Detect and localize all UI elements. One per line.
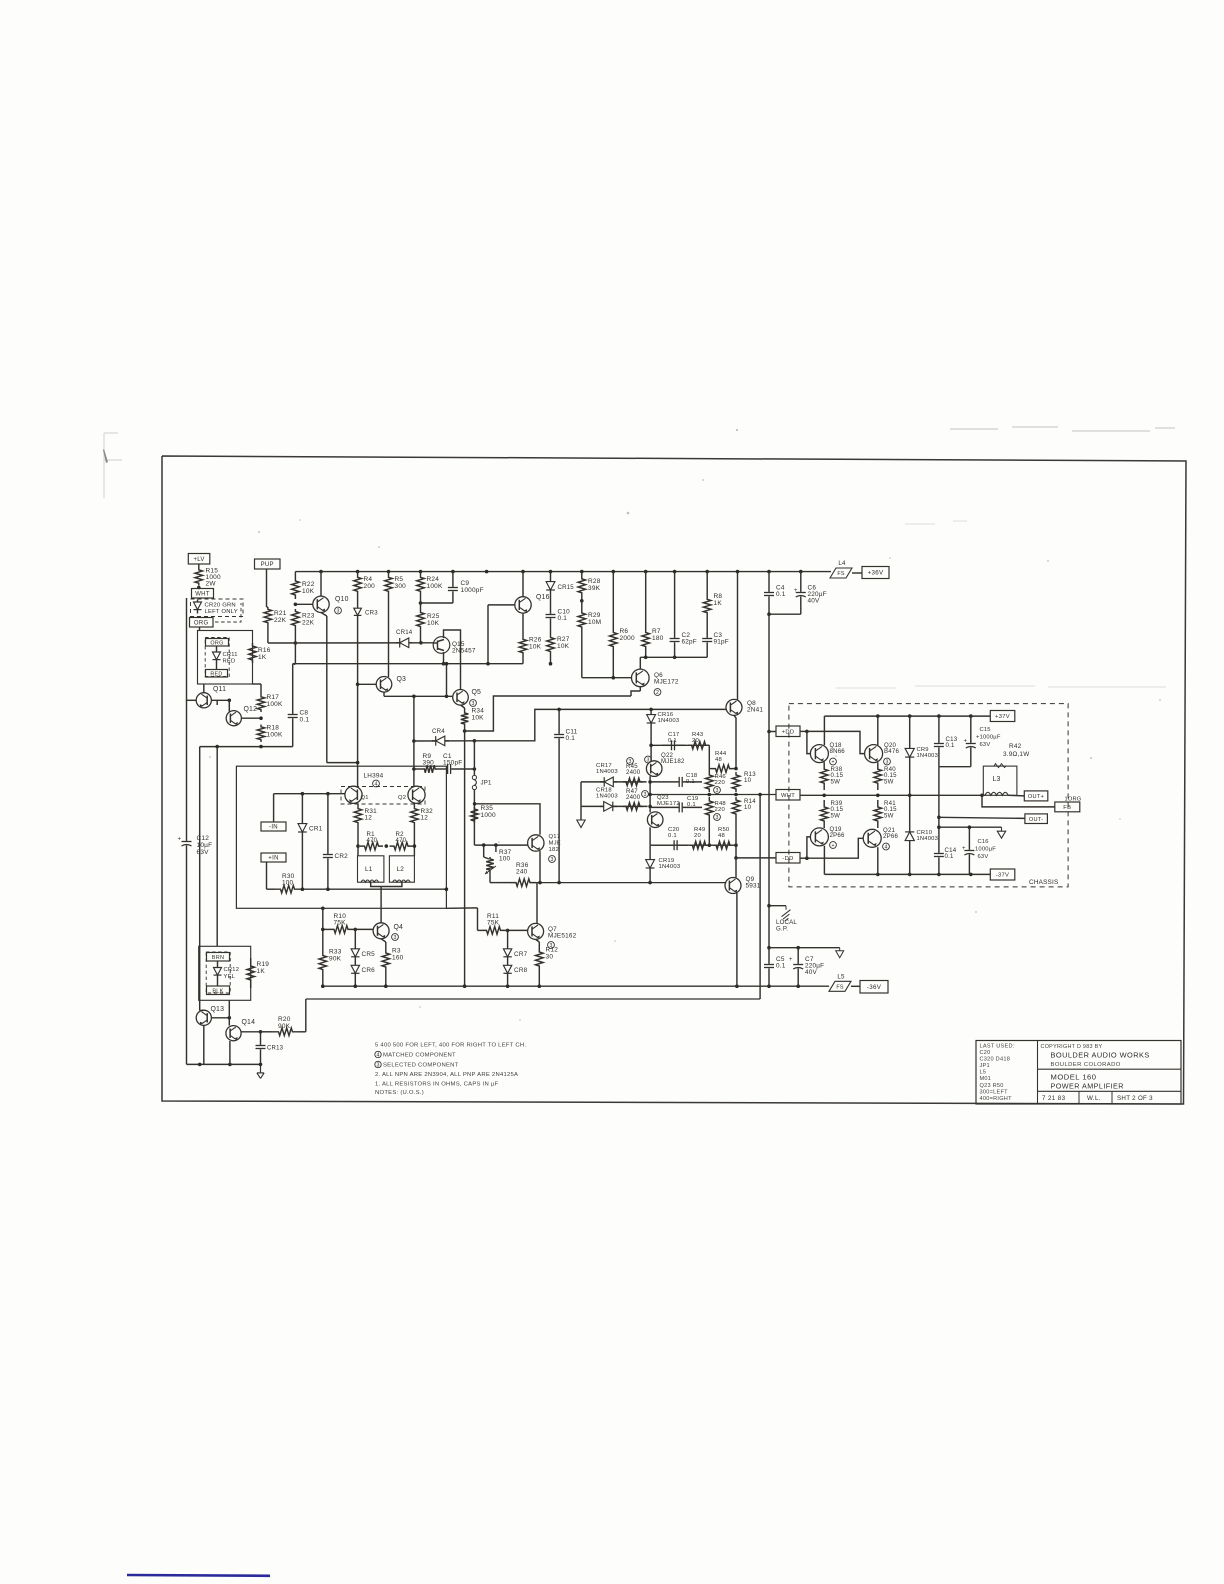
wire Q12 emitter to R17/R18 node bbox=[241, 717, 261, 719]
node -DD bbox=[776, 853, 800, 864]
svg-text:3: 3 bbox=[377, 1062, 380, 1068]
wire R14 bottom to -DD node bbox=[735, 817, 737, 878]
transistor Q10 bbox=[313, 596, 329, 612]
capacitor C14 0.1 bbox=[938, 840, 940, 853]
wire PUP down to R21 bbox=[266, 569, 268, 607]
resistor R34 10K bbox=[461, 711, 469, 726]
resistor R18 100K bbox=[257, 725, 265, 743]
transistor Q23 MJE172 bbox=[647, 812, 663, 828]
svg-text:90K: 90K bbox=[278, 1023, 291, 1030]
resistor R15 1000 2W bbox=[195, 568, 203, 586]
capacitor C13 0.1 bbox=[938, 716, 940, 743]
wire Q10 collector to bus bbox=[320, 572, 322, 597]
photocopy specks bbox=[258, 531, 260, 533]
svg-text:100K: 100K bbox=[267, 731, 283, 738]
svg-text:-37V: -37V bbox=[996, 873, 1009, 879]
svg-text:8N66: 8N66 bbox=[830, 748, 846, 755]
wire Q9 emitter down to bus bbox=[736, 893, 738, 986]
resistor R19 1K (on box edge) bbox=[247, 958, 255, 988]
dashed outline LH394 pair bbox=[341, 787, 425, 805]
collector tie line (R7/C2/C3/Q6) bbox=[640, 656, 707, 658]
svg-text:150pF: 150pF bbox=[443, 760, 462, 767]
node BRN bbox=[207, 953, 230, 962]
wire C4/C6 bottom tie bbox=[769, 613, 801, 615]
svg-text:100: 100 bbox=[282, 879, 294, 886]
trimmer R37 100 bbox=[483, 845, 485, 857]
resistor R20 90K bbox=[272, 1028, 299, 1036]
page margin mark (faint photocopy artifact, left edge) bbox=[104, 433, 122, 498]
wire Q17 emitter down to bias line bbox=[539, 851, 541, 883]
resistor R25 10K bbox=[417, 610, 425, 629]
wire Q13 base to Q14 column bbox=[211, 1017, 229, 1019]
wire Q21 collector to bottom rail bbox=[877, 847, 879, 874]
svg-text:CR5: CR5 bbox=[362, 951, 376, 958]
chassis ground triangle bbox=[1001, 827, 1003, 831]
svg-text:BOULDER COLORADO: BOULDER COLORADO bbox=[1051, 1062, 1121, 1068]
inductor L1 (pot core box) bbox=[358, 856, 384, 882]
svg-text:91pF: 91pF bbox=[714, 639, 729, 646]
resistor R12 30 bbox=[536, 948, 544, 970]
resistor R24 100K bbox=[417, 572, 425, 597]
transistor Q18 bbox=[810, 745, 828, 763]
wire R21 to gate line bbox=[267, 625, 269, 643]
feedback tap to FB node bbox=[982, 795, 1055, 807]
indicator assembly box (CR11) bbox=[198, 631, 253, 685]
wire R23 bottom to gate line bbox=[294, 628, 296, 643]
wire L3 to OUT+ bbox=[1008, 794, 1024, 797]
svg-text:+LV: +LV bbox=[193, 557, 204, 563]
svg-text:30: 30 bbox=[546, 953, 554, 960]
junction R10/CR5 bbox=[354, 928, 358, 932]
decoupling tap line bbox=[769, 947, 840, 949]
svg-text:5 400 500 FOR LEFT, 400 FOR R: 5 400 500 FOR LEFT, 400 FOR RIGHT TO LEF… bbox=[375, 1043, 526, 1049]
capacitor C18 0.1 bbox=[651, 781, 679, 783]
svg-text:CR7: CR7 bbox=[514, 951, 528, 958]
C20/R49/R50 line bbox=[650, 844, 736, 846]
junction R28/R29 bbox=[580, 599, 584, 603]
node BLK bbox=[207, 986, 230, 995]
svg-text:48: 48 bbox=[715, 757, 722, 763]
transistor Q19 bbox=[810, 828, 828, 846]
wire R33 tap down bbox=[322, 929, 324, 951]
svg-text:1. ALL RESISTORS IN OHMS, CAPS: 1. ALL RESISTORS IN OHMS, CAPS IN µF bbox=[375, 1081, 499, 1087]
wire Q3 emitter to Q5 base line bbox=[383, 692, 385, 696]
mirror bias line bbox=[295, 663, 524, 665]
wire box bottom to R10 bbox=[322, 908, 324, 929]
diode CR9 1N4003 bbox=[909, 716, 911, 795]
svg-text:2W: 2W bbox=[206, 581, 217, 588]
staircase wire R34 node to Q6 emitter bbox=[465, 696, 631, 731]
wire Q11 emitter to Q12 bbox=[211, 699, 229, 701]
output mid rail bbox=[800, 794, 985, 796]
diode CR16 1N4003 bbox=[650, 709, 652, 745]
svg-text:FS: FS bbox=[837, 571, 844, 577]
svg-text:-DD: -DD bbox=[782, 856, 793, 862]
node +LV bbox=[188, 554, 210, 565]
svg-text:C15: C15 bbox=[980, 727, 991, 733]
wire Q11 collector to indicator box bbox=[203, 684, 205, 693]
wire OUT- line bbox=[939, 817, 1025, 818]
resistor R48 220 bbox=[706, 797, 714, 819]
diode CR15 bbox=[550, 572, 552, 598]
wire Q22 emitter / Q23 collector column bbox=[649, 776, 651, 812]
resistor R46 220 bbox=[706, 772, 714, 792]
WHT drive line bbox=[650, 794, 776, 796]
svg-text:+36V: +36V bbox=[868, 570, 884, 577]
resistor R26 10K bbox=[519, 637, 527, 655]
svg-text:0.1: 0.1 bbox=[668, 738, 677, 744]
svg-text:+: + bbox=[178, 837, 182, 843]
wire junction to BRN box bbox=[216, 747, 218, 947]
wire R35 column bbox=[473, 807, 475, 845]
svg-text:POWER AMPLIFIER: POWER AMPLIFIER bbox=[1051, 1082, 1124, 1091]
wire R37 to R36 line bbox=[495, 845, 497, 852]
svg-text:240: 240 bbox=[516, 869, 528, 876]
wire Q13 collector from left column bbox=[200, 1009, 204, 1011]
resistor R9 390 and capacitor C1 150pF line bbox=[414, 768, 423, 770]
svg-text:ORG: ORG bbox=[210, 641, 223, 647]
svg-text:C320 D418: C320 D418 bbox=[980, 1057, 1011, 1063]
svg-text:10K: 10K bbox=[427, 620, 440, 627]
svg-text:3: 3 bbox=[644, 792, 647, 798]
ground (LED cell) bbox=[260, 1064, 262, 1072]
svg-text:MJE5162: MJE5162 bbox=[548, 933, 577, 940]
svg-text:+: + bbox=[962, 846, 966, 852]
dashed option box CR20 bbox=[191, 599, 244, 617]
wire +DD from ground rail bbox=[769, 731, 776, 733]
svg-text:0.1: 0.1 bbox=[776, 591, 786, 598]
transistor Q2 (LH394 half) bbox=[408, 786, 425, 803]
wire R17 top to indicator box bbox=[253, 683, 262, 685]
wire Q5 emitter to R34 bbox=[461, 705, 465, 708]
svg-text:Q5: Q5 bbox=[472, 689, 482, 696]
svg-text:COPYRIGHT D 983 BY: COPYRIGHT D 983 BY bbox=[1041, 1044, 1103, 1050]
svg-text:470: 470 bbox=[396, 837, 407, 844]
fuse L5 bbox=[829, 981, 851, 991]
svg-text:Q11: Q11 bbox=[213, 686, 226, 693]
bottom ground wire of LED cell bbox=[187, 1063, 261, 1065]
wire bus left end down to R22 bbox=[294, 572, 296, 578]
left rail (to C12 and bottom) bbox=[186, 598, 188, 830]
diodes CR5 CR6 bbox=[354, 929, 356, 962]
capacitor C17 0.1 bbox=[662, 744, 671, 746]
diodes CR7 CR8 bbox=[507, 930, 509, 962]
svg-text:L1: L1 bbox=[365, 866, 373, 873]
svg-text:Q1: Q1 bbox=[361, 795, 369, 801]
diode CR10 1N4003 bbox=[909, 795, 911, 874]
svg-text:0.1: 0.1 bbox=[776, 963, 786, 970]
resistor R31 12 bbox=[354, 803, 362, 828]
svg-text:63V: 63V bbox=[978, 854, 989, 860]
wire ORG to indicator box bbox=[199, 627, 201, 631]
svg-text:Q10: Q10 bbox=[335, 596, 349, 603]
JFET Q15 2N5457 bbox=[433, 637, 450, 654]
title block frame bbox=[976, 1041, 1181, 1105]
svg-text:0.1: 0.1 bbox=[668, 833, 677, 839]
svg-text:2400: 2400 bbox=[626, 769, 641, 776]
svg-text:CR20 GRN: CR20 GRN bbox=[205, 603, 236, 609]
svg-text:L2: L2 bbox=[397, 866, 405, 873]
wire R5 down to Q3 collector bbox=[388, 597, 390, 677]
wire Q18 emitter to R38 bbox=[823, 761, 826, 762]
wire Q20 collector to top rail bbox=[877, 716, 879, 745]
svg-text:1000pF: 1000pF bbox=[461, 587, 484, 594]
capacitor C5 0.1 bbox=[768, 948, 770, 964]
svg-text:10µF: 10µF bbox=[197, 842, 213, 849]
svg-text:5W: 5W bbox=[831, 812, 841, 819]
input stage board outline bbox=[236, 766, 446, 908]
transistor Q13 bbox=[196, 1010, 211, 1025]
transistor Q7 MJE5162 bbox=[528, 923, 544, 939]
svg-text:22K: 22K bbox=[274, 617, 287, 624]
wire BRN box bottom to Q13 base node bbox=[228, 1000, 230, 1025]
resistor R2 470 bbox=[390, 842, 413, 850]
fuse L4 bbox=[830, 568, 852, 578]
wire R44 junction to R46 top bbox=[708, 769, 710, 772]
svg-text:R42: R42 bbox=[1009, 743, 1022, 750]
faint copier streaks top right bbox=[950, 427, 1175, 431]
node +DD bbox=[776, 726, 800, 737]
svg-text:WHT: WHT bbox=[195, 592, 210, 598]
transistor Q22 MJE182 bbox=[646, 761, 662, 777]
connector arrow (decoupling) bbox=[836, 948, 844, 958]
wire R20 to feedback line riser bbox=[299, 1031, 306, 1033]
diode CR19 1N4003 bbox=[649, 845, 651, 882]
svg-text:1K: 1K bbox=[258, 654, 267, 661]
transistor Q3 bbox=[376, 677, 392, 693]
diode CR11 RED bbox=[216, 646, 218, 669]
svg-text:W.L.: W.L. bbox=[1087, 1095, 1101, 1102]
wire R34 column down to bottom bus bbox=[464, 731, 466, 986]
svg-text:200: 200 bbox=[364, 583, 376, 590]
svg-text:JP1: JP1 bbox=[481, 780, 493, 787]
wire R25 to CR14 line bbox=[420, 629, 422, 643]
top supply bus + bbox=[295, 571, 831, 573]
svg-text:Q12: Q12 bbox=[244, 706, 258, 713]
svg-text:OUT+: OUT+ bbox=[1028, 794, 1044, 800]
resistor R17 100K bbox=[257, 695, 265, 713]
note symbol matched bbox=[375, 1051, 381, 1057]
svg-text:1000µF: 1000µF bbox=[975, 847, 996, 853]
output bottom rail bbox=[824, 873, 990, 875]
svg-text:220: 220 bbox=[715, 807, 726, 813]
wire tail line to input stage bbox=[327, 762, 358, 764]
svg-text:0.1: 0.1 bbox=[945, 853, 954, 860]
wire +LV to R15 bbox=[198, 564, 200, 568]
svg-text:10M: 10M bbox=[588, 619, 601, 626]
schematic sheet border bbox=[162, 456, 1186, 1104]
local ground tap bbox=[769, 905, 786, 907]
svg-text:CR4: CR4 bbox=[432, 728, 445, 735]
capacitor C4 0.1 bbox=[768, 572, 770, 592]
svg-text:YEL: YEL bbox=[224, 974, 236, 980]
svg-text:0.1: 0.1 bbox=[566, 735, 576, 742]
svg-text:0.1: 0.1 bbox=[946, 742, 955, 749]
capacitor C10 0.1 bbox=[550, 598, 552, 614]
svg-text:1N4003: 1N4003 bbox=[596, 769, 618, 775]
transistor Q11 bbox=[196, 693, 211, 708]
transistor Q6 MJE172 bbox=[632, 669, 650, 687]
diode CR14 bbox=[396, 642, 412, 644]
svg-text:+DD: +DD bbox=[782, 730, 795, 736]
svg-text:WHT: WHT bbox=[781, 793, 795, 799]
svg-text:2P66: 2P66 bbox=[883, 833, 898, 840]
resistor R50 48 bbox=[713, 841, 733, 849]
node -IN bbox=[261, 822, 286, 831]
svg-text:B476: B476 bbox=[884, 748, 899, 755]
svg-text:7 21 83: 7 21 83 bbox=[1042, 1095, 1066, 1102]
transistor Q16 bbox=[515, 597, 531, 613]
wire Q6 collector up bbox=[639, 657, 641, 669]
svg-text:63V: 63V bbox=[980, 742, 991, 748]
wire R31 to R1 line bbox=[357, 828, 359, 856]
svg-text:+37V: +37V bbox=[995, 714, 1010, 720]
svg-text:2P66: 2P66 bbox=[830, 832, 845, 839]
transistor Q14 bbox=[226, 1026, 241, 1041]
svg-text:1K: 1K bbox=[714, 600, 723, 607]
wire Q11 emitter node down to Q12 collector bbox=[228, 700, 230, 712]
ground rail down from C4/C6 bbox=[768, 614, 770, 948]
wire CR3 to Q3 base / Q1 bbox=[357, 625, 359, 786]
capacitor C3 91pF bbox=[706, 615, 708, 638]
wire Q16 base left and down bbox=[488, 604, 515, 606]
wire Q10 emitter down to tail line bbox=[321, 613, 327, 617]
resistor R38 0.15 5W bbox=[820, 762, 828, 790]
wire Q22 collector up to CR16 node bbox=[650, 745, 652, 761]
svg-text:182: 182 bbox=[549, 847, 559, 853]
svg-text:5W: 5W bbox=[884, 778, 894, 785]
wire R6 bottom to Q6 base line bbox=[612, 651, 614, 678]
svg-text:L5: L5 bbox=[837, 973, 845, 980]
svg-text:40V: 40V bbox=[805, 969, 818, 976]
junction R24/R25/C9 bbox=[419, 601, 423, 605]
svg-text:48: 48 bbox=[718, 833, 725, 839]
resistor R13 10 bbox=[732, 772, 740, 792]
resistor R32 12 bbox=[411, 803, 419, 828]
svg-text:L5: L5 bbox=[980, 1070, 987, 1076]
node -36V bbox=[860, 981, 888, 994]
transistor Q8 bbox=[726, 699, 742, 715]
bottom bus (negative rail) bbox=[323, 985, 829, 987]
svg-text:MJE172: MJE172 bbox=[654, 679, 679, 686]
wire Q7 emitter to R12 bbox=[536, 939, 540, 942]
wire Q23 emitter column down bbox=[649, 827, 651, 845]
svg-text:3: 3 bbox=[716, 788, 719, 794]
svg-text:CR12: CR12 bbox=[224, 967, 240, 973]
node RED (indicator) bbox=[206, 670, 228, 678]
node OUT+ bbox=[1024, 791, 1048, 801]
svg-text:300: 300 bbox=[395, 583, 407, 590]
svg-text:3: 3 bbox=[394, 935, 397, 941]
svg-text:Q2: Q2 bbox=[398, 795, 406, 801]
wire L4 to +36V bbox=[852, 572, 862, 574]
svg-text:39K: 39K bbox=[588, 585, 601, 592]
svg-text:+1000µF: +1000µF bbox=[976, 735, 1001, 741]
svg-text:3: 3 bbox=[647, 757, 650, 763]
svg-text:+: + bbox=[789, 957, 793, 963]
svg-text:3: 3 bbox=[472, 701, 475, 707]
node PUP bbox=[255, 559, 281, 569]
wire C13 column down through OUT- to C14 bbox=[938, 767, 940, 840]
svg-text:G.P.: G.P. bbox=[776, 925, 788, 932]
svg-text:1N4003: 1N4003 bbox=[658, 718, 680, 724]
svg-text:470: 470 bbox=[367, 837, 378, 844]
wire C9 bottom to R24/R25 junction bbox=[421, 602, 453, 604]
transistor Q20 bbox=[865, 745, 883, 763]
transistor Q4 bbox=[373, 923, 389, 939]
svg-text:CR2: CR2 bbox=[335, 853, 349, 860]
wire Q3 base bbox=[358, 683, 377, 685]
resistor R6 2000 bbox=[612, 572, 614, 628]
svg-text:40V: 40V bbox=[808, 598, 821, 605]
transistor Q12 bbox=[226, 711, 241, 726]
svg-text:2400: 2400 bbox=[626, 794, 641, 801]
capacitor C6 220uF 40V bbox=[800, 572, 802, 592]
resistor R10 75K bbox=[330, 926, 352, 934]
wire R34 bottom junction bbox=[464, 726, 466, 731]
wire L5 to -36V bbox=[851, 985, 860, 987]
wire +IN down to R30 bbox=[266, 862, 268, 889]
bottom wire of input cell bbox=[300, 888, 446, 890]
capacitor C9 1000pF bbox=[452, 572, 454, 587]
wire Q1 base line bbox=[274, 793, 345, 795]
svg-text:0.1: 0.1 bbox=[558, 615, 568, 622]
wire R26 to mirror line bbox=[522, 655, 524, 664]
svg-text:5W: 5W bbox=[831, 778, 841, 785]
transistor Q9 5931 bbox=[725, 878, 741, 894]
svg-text:22K: 22K bbox=[302, 619, 315, 626]
svg-text:+: + bbox=[794, 588, 798, 594]
resistor R30 100 bbox=[275, 885, 300, 893]
inductor L3 with R42 box bbox=[983, 766, 1017, 795]
resistor R29 10M bbox=[578, 610, 586, 630]
svg-text:100K: 100K bbox=[267, 701, 283, 708]
svg-text:Q23 R50: Q23 R50 bbox=[980, 1083, 1004, 1089]
bypass wire R35 to Q17 collector bbox=[475, 804, 540, 835]
node +37V bbox=[990, 711, 1015, 722]
capacitor C16 1000uF 63V bbox=[968, 827, 970, 850]
svg-text:1ORG: 1ORG bbox=[1065, 797, 1082, 803]
svg-text:OUT-: OUT- bbox=[1029, 817, 1044, 823]
svg-text:C16: C16 bbox=[978, 839, 989, 845]
wire -DD to output bases bbox=[800, 857, 807, 859]
junction R11/CR7 bbox=[506, 929, 510, 933]
svg-text:1000: 1000 bbox=[481, 812, 496, 819]
wire Q11 base to left rail bbox=[187, 699, 197, 701]
svg-text:L3: L3 bbox=[993, 776, 1001, 783]
transistor Q1 (LH394 half) bbox=[345, 786, 362, 803]
wire R43 to R44 bbox=[708, 745, 710, 768]
diode CR4 line bbox=[414, 740, 475, 742]
node +36V bbox=[862, 567, 889, 579]
resistor R28 39K bbox=[578, 572, 586, 600]
svg-text:MATCHED COMPONENT: MATCHED COMPONENT bbox=[383, 1053, 456, 1059]
svg-text:JP1: JP1 bbox=[980, 1063, 990, 1069]
capacitor C11 0.1 bbox=[558, 709, 560, 734]
feedback tap on input box bottom edge bbox=[321, 907, 325, 911]
resistor R8 1K bbox=[706, 572, 708, 597]
resistor R11 75K bbox=[482, 927, 505, 935]
svg-text:180: 180 bbox=[652, 635, 664, 642]
svg-text:10K: 10K bbox=[557, 643, 570, 650]
resistor R40 0.15 5W bbox=[874, 762, 882, 790]
svg-text:4: 4 bbox=[377, 1052, 380, 1058]
resistor R39 0.15 5W bbox=[820, 800, 828, 828]
wire -IN to base line bbox=[273, 794, 275, 822]
svg-text:2: 2 bbox=[656, 690, 659, 696]
svg-text:CR8: CR8 bbox=[514, 967, 528, 974]
svg-text:63V: 63V bbox=[197, 849, 210, 856]
